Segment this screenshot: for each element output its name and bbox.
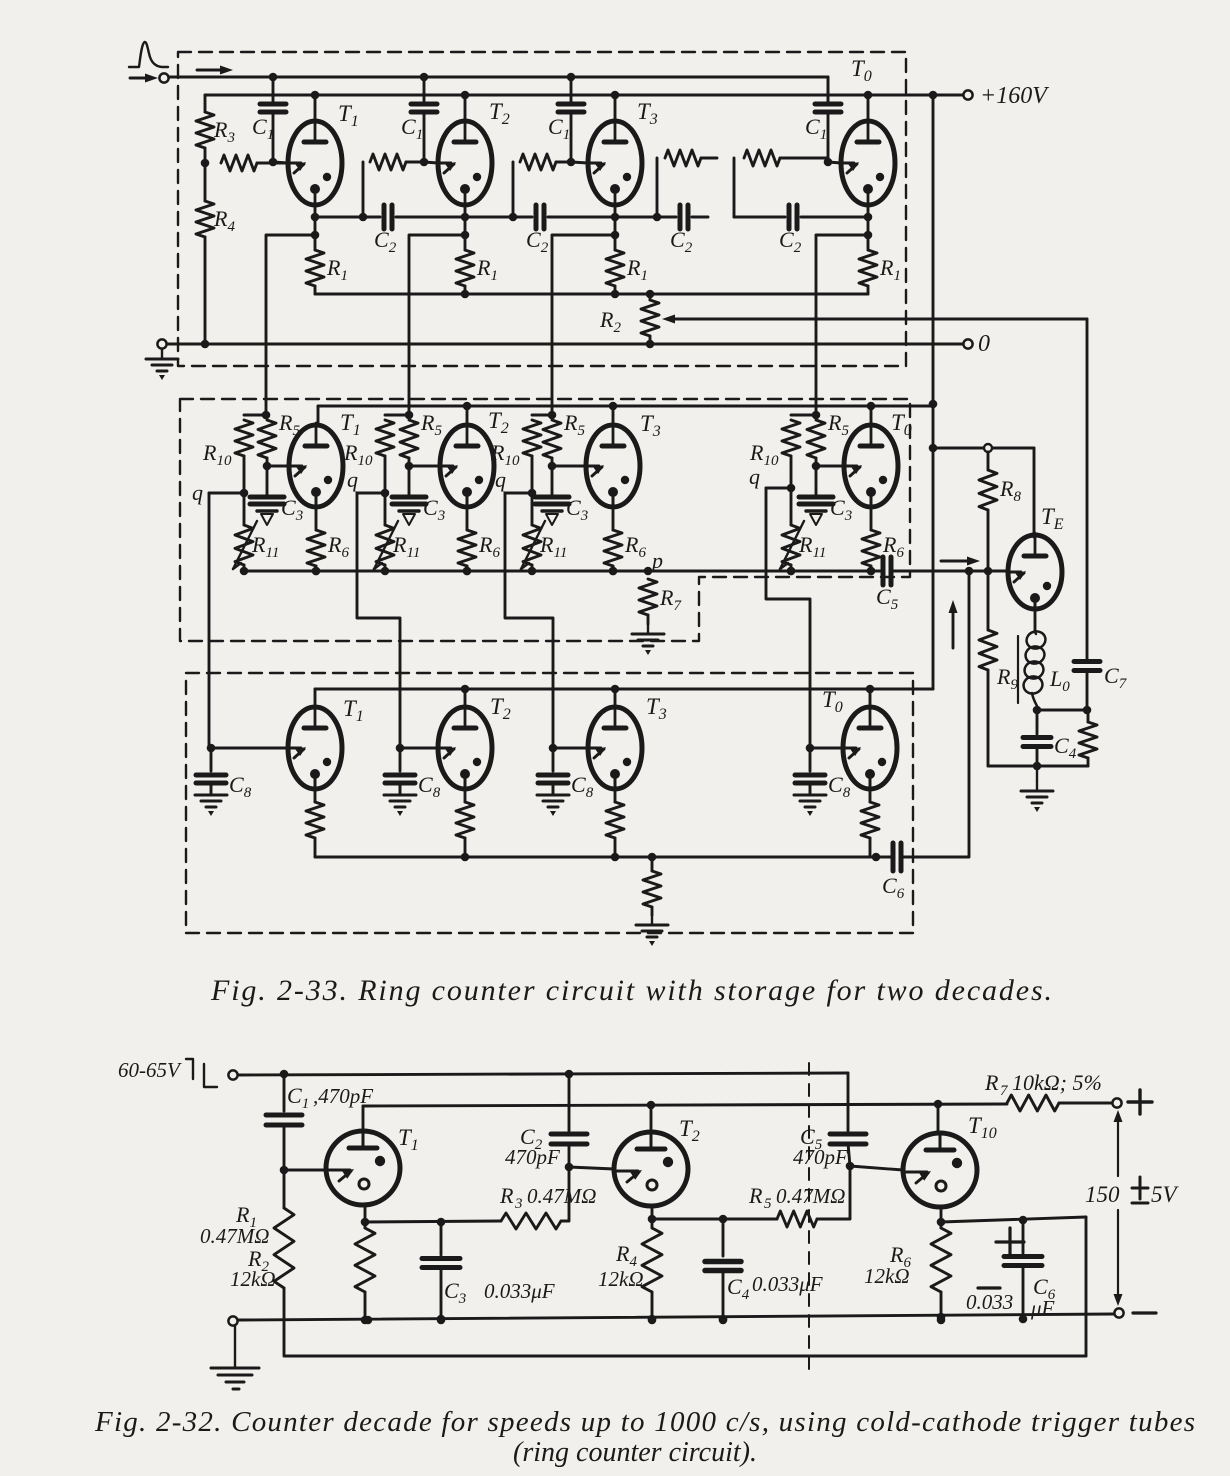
svg-text:Fig. 2-33. Ring counter cir: Fig. 2-33. Ring counter circuit with sto…: [210, 974, 1052, 1007]
svg-text:12kΩ: 12kΩ: [230, 1267, 276, 1291]
svg-text:(ring counter circuit).: (ring counter circuit).: [513, 1437, 757, 1468]
svg-text:60-65V: 60-65V: [118, 1058, 182, 1082]
svg-text:q: q: [192, 480, 203, 505]
svg-text:,470pF: ,470pF: [313, 1084, 373, 1108]
svg-text:μF: μF: [1030, 1296, 1055, 1320]
svg-text:q: q: [495, 467, 506, 492]
svg-text:R: R: [748, 1183, 763, 1208]
svg-text:R: R: [499, 1183, 514, 1208]
svg-text:12kΩ: 12kΩ: [864, 1264, 910, 1288]
svg-text:470pF: 470pF: [505, 1145, 560, 1169]
svg-text:q: q: [749, 464, 760, 489]
svg-text:150: 150: [1085, 1182, 1120, 1207]
svg-text:0.033: 0.033: [966, 1290, 1013, 1314]
svg-text:5V: 5V: [1151, 1182, 1180, 1207]
svg-text:0.033μF: 0.033μF: [484, 1279, 555, 1303]
svg-text:p: p: [650, 548, 663, 573]
svg-text:5: 5: [764, 1196, 772, 1212]
svg-text:R: R: [984, 1070, 999, 1095]
svg-text:+160V: +160V: [980, 83, 1049, 109]
svg-text:0: 0: [978, 331, 990, 357]
svg-text:12kΩ: 12kΩ: [598, 1267, 644, 1291]
svg-text:10kΩ; 5%: 10kΩ; 5%: [1012, 1070, 1102, 1095]
svg-text:0.033μF: 0.033μF: [752, 1272, 823, 1296]
svg-text:3: 3: [514, 1196, 523, 1212]
svg-text:470pF: 470pF: [793, 1145, 848, 1169]
svg-text:0.47MΩ: 0.47MΩ: [200, 1224, 269, 1248]
svg-text:q: q: [347, 467, 358, 492]
svg-text:0.47MΩ: 0.47MΩ: [527, 1184, 596, 1208]
svg-text:0.47MΩ: 0.47MΩ: [776, 1184, 845, 1208]
